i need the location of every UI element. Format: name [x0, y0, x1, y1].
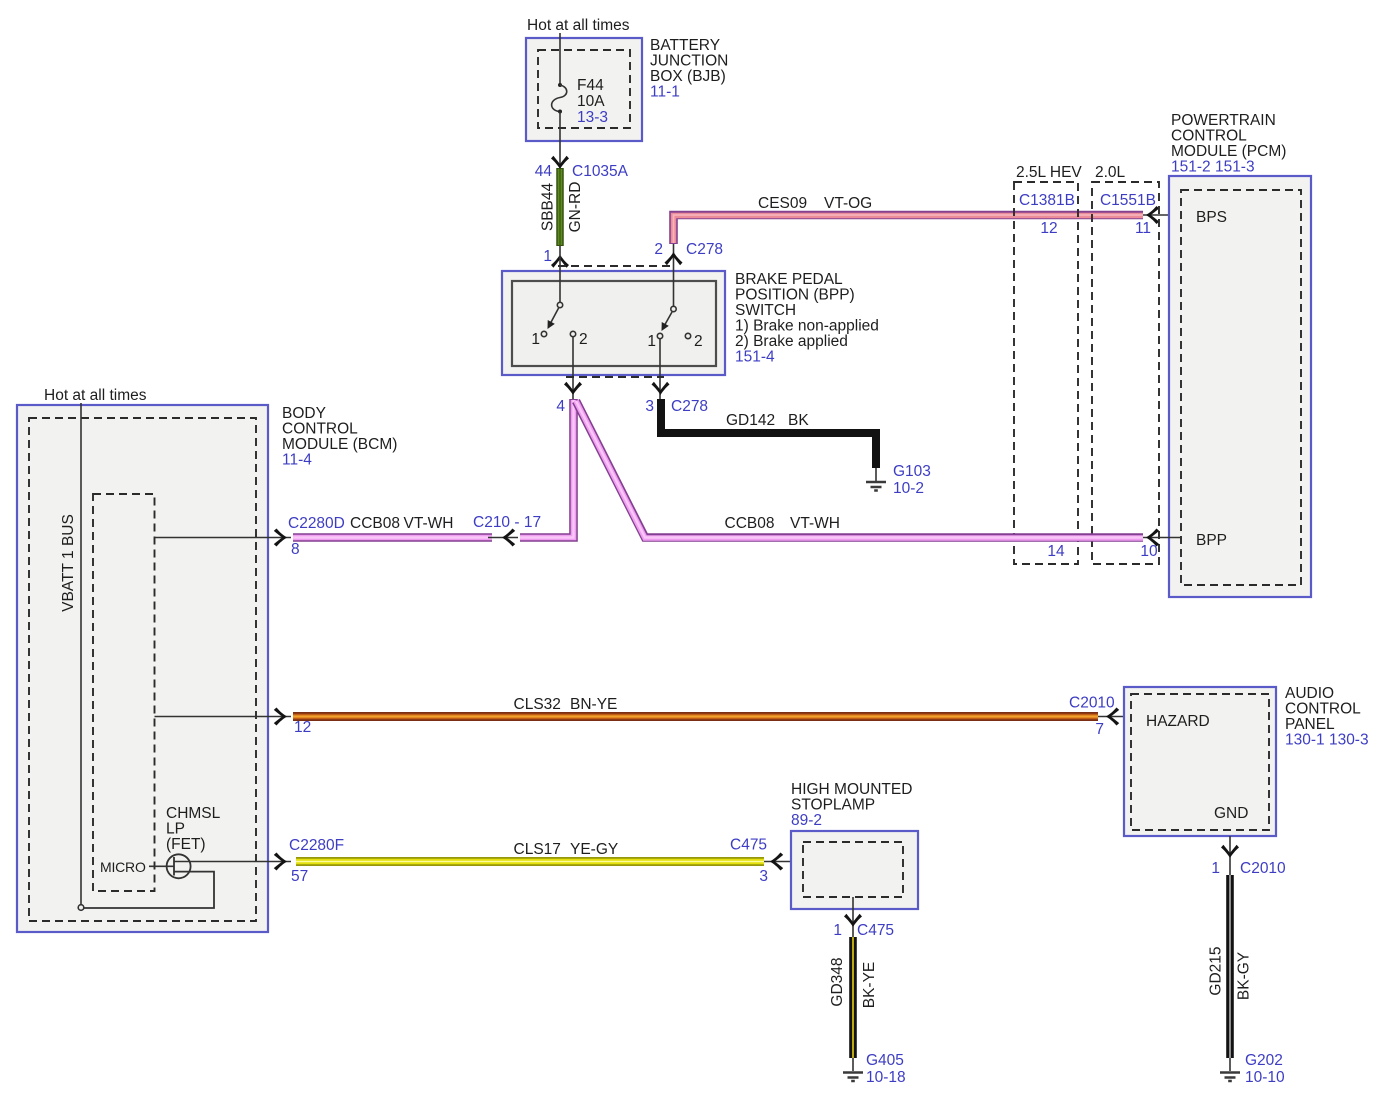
pin GND label [1214, 805, 1248, 822]
wire from contact 2 down to pin 4 [572, 337, 574, 399]
connector C475 arrow [770, 853, 783, 871]
pin 8 label [291, 541, 300, 558]
C2010 pin 7 label [1095, 721, 1104, 738]
svg-text:BPS: BPS [1196, 209, 1227, 226]
svg-text:1: 1 [1211, 860, 1220, 877]
connector C1551B label [1100, 192, 1156, 209]
wire GD215 color label BK-GY [1236, 952, 1253, 1000]
connector arrow at PCM BPP [1146, 529, 1159, 547]
svg-text:10-10: 10-10 [1245, 1069, 1285, 1086]
connector C2280D label [288, 515, 345, 532]
PCM inner dashed boundary [1181, 190, 1301, 585]
wire CES09 VT-OG [674, 215, 1144, 244]
svg-text:G405: G405 [866, 1052, 904, 1069]
connector C475 label [730, 837, 767, 854]
C1381B pin 12 label [1040, 220, 1057, 237]
BPP switch pole 2 blade [658, 312, 672, 333]
lead to ground G103 [875, 468, 877, 481]
FET output chord to pin 57 [174, 861, 291, 863]
net Hot at all times (BCM) [44, 387, 147, 404]
svg-text:Hot at all times: Hot at all times [527, 17, 630, 34]
svg-text:3: 3 [759, 868, 768, 885]
BCM name label [282, 405, 397, 469]
connector C2010 arrow (hazard) [1106, 708, 1119, 726]
wire CCB08 circuit label (right) [725, 515, 840, 532]
svg-text:BODY: BODY [282, 405, 326, 422]
thin lead from CCB08 to PCM BPP [1143, 537, 1182, 539]
wire from Hot at all times into fuse F44 [559, 33, 561, 84]
FET supply path to VBATT bus [84, 872, 214, 908]
ground G202 label [1245, 1052, 1285, 1086]
svg-text:SWITCH: SWITCH [735, 302, 796, 319]
svg-text:BK: BK [788, 412, 809, 429]
svg-text:11-1: 11-1 [650, 84, 680, 101]
connector C475 bottom arrow [844, 914, 862, 927]
BCM output stub to pin 8 [155, 537, 292, 539]
net Hot at all times (BJB) [527, 17, 630, 34]
node junction on VBATT bus [78, 905, 84, 911]
BPP switch pin 1 arrow [551, 255, 569, 268]
svg-text:CLS32: CLS32 [514, 696, 561, 713]
connector C2280F label [289, 837, 344, 854]
brake pedal position switch outer box [502, 271, 725, 375]
svg-text:1) Brake non-applied: 1) Brake non-applied [735, 318, 879, 335]
svg-text:G202: G202 [1245, 1052, 1283, 1069]
2.5L HEV dashed box [1014, 182, 1078, 564]
connector C278 top dashed line [558, 265, 670, 267]
svg-text:CONTROL: CONTROL [282, 421, 358, 438]
PCM name label [1171, 112, 1286, 176]
C1551B pin 11 label [1135, 220, 1151, 237]
svg-text:2) Brake applied: 2) Brake applied [735, 333, 848, 350]
svg-text:C2010: C2010 [1069, 695, 1115, 712]
svg-text:10: 10 [1140, 543, 1158, 560]
svg-text:Hot at all times: Hot at all times [44, 387, 147, 404]
wire CLS17 circuit label [514, 841, 619, 858]
BPP switch pin 1 label [543, 248, 552, 265]
svg-text:2: 2 [579, 331, 588, 348]
svg-text:12: 12 [294, 719, 311, 736]
gate lead from MICRO to FET [149, 865, 174, 867]
svg-text:10-18: 10-18 [866, 1069, 906, 1086]
wire GD142 BK [661, 399, 876, 468]
net VBATT 1 BUS label [60, 514, 77, 612]
svg-text:2: 2 [654, 241, 663, 258]
wire GD215 BK-GY [1226, 875, 1234, 1058]
wire from fuse to connector C1035A [559, 112, 561, 169]
svg-text:BN-YE: BN-YE [570, 696, 617, 713]
CHMSL LP (FET) label [166, 805, 221, 853]
BJB inner dashed boundary [538, 50, 630, 128]
wire VBATT 1 BUS vertical [80, 403, 82, 907]
high mounted stoplamp name label [791, 781, 912, 829]
BPP pin 3 label [645, 398, 708, 415]
svg-text:BPP: BPP [1196, 532, 1227, 549]
wire CES09 circuit label [758, 195, 872, 212]
svg-text:1: 1 [543, 248, 552, 265]
svg-text:14: 14 [1047, 543, 1065, 560]
wire SBB44 color label GN-RD [567, 182, 584, 233]
lead from GND out of audio control panel [1229, 836, 1231, 876]
BCM inner dashed boundary [29, 418, 256, 921]
svg-text:PANEL: PANEL [1285, 716, 1335, 733]
audio control panel inner dashed boundary [1131, 694, 1269, 830]
C2010 GND pin 1 label [1211, 860, 1286, 877]
svg-text:130-1 130-3: 130-1 130-3 [1285, 732, 1369, 749]
svg-text:C1035A: C1035A [572, 163, 629, 180]
in-line connector C210-17 arrow [502, 529, 515, 547]
svg-text:C475: C475 [857, 922, 894, 939]
wire into BPP switch pin 1 [559, 246, 561, 302]
svg-text:1: 1 [833, 922, 842, 939]
in-line connector C210-17 link lead [488, 537, 518, 539]
BPP pin 3 arrow [652, 382, 670, 395]
wire CLS17 YE-GY [296, 857, 764, 866]
PCM pin BPP [1196, 532, 1227, 549]
ground G103 label [893, 463, 931, 497]
svg-text:89-2: 89-2 [791, 812, 822, 829]
BPP switch pole 2 contact 2 [685, 333, 702, 350]
svg-text:2.5L HEV: 2.5L HEV [1016, 164, 1082, 181]
svg-text:10-2: 10-2 [893, 480, 924, 497]
svg-text:C2010: C2010 [1240, 860, 1286, 877]
svg-text:3: 3 [645, 398, 654, 415]
high mounted stoplamp box [791, 831, 918, 909]
thin lead from CLS17 to stoplamp [764, 861, 804, 863]
BPP switch pole 1 contact 2 [570, 331, 587, 348]
wire GD142 circuit label [726, 412, 809, 429]
ground G103 [866, 482, 886, 491]
ground G405 label [866, 1052, 906, 1086]
svg-text:POSITION (BPP): POSITION (BPP) [735, 287, 855, 304]
svg-text:(FET): (FET) [166, 836, 206, 853]
fuse F44 10A [552, 77, 608, 126]
svg-text:CES09: CES09 [758, 195, 807, 212]
svg-text:CCB08: CCB08 [350, 515, 400, 532]
C1551B pin 10 label [1140, 543, 1158, 560]
2.0L dashed box [1092, 182, 1159, 564]
svg-text:C210 - 17: C210 - 17 [473, 514, 541, 531]
svg-text:151-4: 151-4 [735, 349, 775, 366]
svg-text:C475: C475 [730, 837, 767, 854]
wire CLS32 circuit label [514, 696, 618, 713]
wire CCB08 VT-WH from BCM pin 8 [293, 533, 492, 542]
BPP pin 4 arrow [564, 382, 582, 395]
C475 pin 3 label [759, 868, 768, 885]
svg-text:VT-OG: VT-OG [824, 195, 872, 212]
BCM pin 57 arrow [274, 853, 287, 871]
BPP switch pole 1 pivot [557, 302, 562, 307]
svg-text:G103: G103 [893, 463, 931, 480]
svg-text:10A: 10A [577, 93, 605, 110]
ground G405 [843, 1073, 863, 1082]
svg-text:57: 57 [291, 868, 308, 885]
svg-text:MODULE (BCM): MODULE (BCM) [282, 436, 397, 453]
BPP switch pole 1 blade [544, 308, 559, 331]
wire GD348 BK-YE [849, 937, 857, 1058]
connector arrow at PCM BPS [1146, 206, 1159, 224]
lead from stoplamp down to C475 [852, 897, 854, 937]
svg-text:BRAKE PEDAL: BRAKE PEDAL [735, 271, 843, 288]
wire CCB08 from C210 up to BPP pin 4 [520, 399, 574, 538]
svg-text:BK-YE: BK-YE [861, 962, 878, 1009]
svg-text:STOPLAMP: STOPLAMP [791, 797, 875, 814]
wire CLS32 BN-YE [293, 712, 1098, 721]
MICRO label [100, 859, 146, 875]
PCM pin BPS [1196, 209, 1227, 226]
connector C1035A pin 44 label [535, 163, 629, 180]
svg-text:GND: GND [1214, 805, 1248, 822]
connector C2010 label (hazard) [1069, 695, 1115, 712]
pin 12 label [294, 719, 311, 736]
svg-text:BATTERY: BATTERY [650, 37, 720, 54]
wire GD348 circuit label [829, 957, 846, 1006]
svg-text:CHMSL: CHMSL [166, 805, 221, 822]
svg-text:GD215: GD215 [1208, 946, 1225, 995]
svg-text:HIGH MOUNTED: HIGH MOUNTED [791, 781, 912, 798]
C1381B pin 14 label [1047, 543, 1065, 560]
svg-text:11: 11 [1135, 220, 1151, 237]
svg-text:GD142: GD142 [726, 412, 775, 429]
svg-text:GN-RD: GN-RD [567, 182, 584, 233]
svg-text:4: 4 [556, 398, 565, 415]
svg-text:7: 7 [1095, 721, 1104, 738]
svg-text:1: 1 [647, 333, 656, 350]
svg-text:C278: C278 [686, 241, 723, 258]
BPP switch name label [735, 271, 879, 366]
BPP switch pin 2 label [654, 241, 723, 258]
wire into BPP switch pin 2 (from CES09) [673, 244, 675, 306]
pin HAZARD label [1146, 713, 1210, 730]
2.5L HEV label [1016, 164, 1082, 181]
svg-text:HAZARD: HAZARD [1146, 713, 1210, 730]
svg-text:8: 8 [291, 541, 300, 558]
svg-text:12: 12 [1040, 220, 1057, 237]
wire SBB44 circuit label [540, 182, 557, 231]
wire CCB08 diagonal and run to PCM [576, 401, 1143, 538]
BPP pin 4 label [556, 398, 565, 415]
svg-text:C2280F: C2280F [289, 837, 344, 854]
C475 bottom pin 1 label [833, 922, 894, 939]
svg-text:CONTROL: CONTROL [1285, 701, 1361, 718]
audio control panel name label [1285, 685, 1369, 749]
svg-text:F44: F44 [577, 77, 604, 94]
audio control panel box [1124, 687, 1276, 836]
svg-text:C278: C278 [671, 398, 708, 415]
thin lead from CLS32 to audio control panel [1098, 716, 1132, 718]
in-line connector C210-17 label [473, 514, 541, 531]
stoplamp inner dashed boundary [803, 842, 903, 897]
svg-text:MICRO: MICRO [100, 859, 146, 875]
connector C278 bottom dashed line [566, 376, 664, 378]
wire CCB08 VT-WH circuit label (left) [350, 515, 453, 532]
svg-text:44: 44 [535, 163, 553, 180]
svg-text:MODULE (PCM): MODULE (PCM) [1171, 143, 1286, 160]
powertrain control module (PCM) box [1169, 176, 1311, 597]
svg-text:CLS17: CLS17 [514, 841, 561, 858]
pin 57 label [291, 868, 308, 885]
wire GD348 color label BK-YE [861, 962, 878, 1009]
svg-text:SBB44: SBB44 [540, 182, 557, 231]
BJB name label [650, 37, 728, 101]
ground G202 [1220, 1073, 1240, 1082]
wire SBB44 GN-RD [556, 168, 564, 246]
svg-text:13-3: 13-3 [577, 109, 608, 126]
svg-text:YE-GY: YE-GY [570, 841, 618, 858]
svg-text:1: 1 [531, 331, 540, 348]
svg-text:2: 2 [694, 333, 703, 350]
BPP switch pole 2 contact 1 [647, 333, 662, 350]
BCM pin 8 arrow [274, 529, 287, 547]
svg-text:2.0L: 2.0L [1095, 164, 1126, 181]
svg-text:VT-WH: VT-WH [404, 515, 454, 532]
BPP switch pole 1 contact 1 [531, 331, 546, 348]
body control module (BCM) outer box [17, 405, 268, 932]
svg-text:C2280D: C2280D [288, 515, 345, 532]
BPP switch pole 2 pivot [671, 306, 676, 311]
wire from pole 2 contact 1 down to pin 3 [659, 339, 661, 400]
lead to ground G202 [1229, 1058, 1231, 1071]
svg-text:CCB08: CCB08 [725, 515, 775, 532]
svg-text:VBATT 1 BUS: VBATT 1 BUS [60, 514, 77, 612]
lead to ground G405 [852, 1058, 854, 1071]
BCM micro dashed boundary [93, 494, 155, 891]
svg-text:LP: LP [166, 821, 185, 838]
BCM pin 12 arrow [274, 708, 287, 726]
connector C2010 arrow (GND) [1221, 845, 1239, 858]
svg-text:11-4: 11-4 [282, 452, 312, 469]
2.0L label [1095, 164, 1126, 181]
connector C1381B label [1019, 192, 1075, 209]
BCM output stub to pin 12 [155, 716, 292, 718]
wire GD215 circuit label [1208, 946, 1225, 995]
transistor CHMSL LP FET [167, 854, 191, 878]
thin lead from CES09 to PCM BPS [1143, 214, 1182, 216]
battery junction box (BJB) outer box [526, 38, 642, 141]
svg-text:C1551B: C1551B [1100, 192, 1156, 209]
svg-text:VT-WH: VT-WH [790, 515, 840, 532]
svg-text:GD348: GD348 [829, 957, 846, 1006]
svg-text:POWERTRAIN: POWERTRAIN [1171, 112, 1276, 129]
svg-text:AUDIO: AUDIO [1285, 685, 1334, 702]
svg-text:151-2 151-3: 151-2 151-3 [1171, 159, 1255, 176]
BPP switch inner body [512, 281, 716, 366]
connector C1035A arrow [551, 156, 569, 169]
svg-text:C1381B: C1381B [1019, 192, 1075, 209]
svg-text:CONTROL: CONTROL [1171, 128, 1247, 145]
svg-text:BOX (BJB): BOX (BJB) [650, 68, 726, 85]
svg-text:JUNCTION: JUNCTION [650, 53, 728, 70]
svg-text:BK-GY: BK-GY [1236, 952, 1253, 1000]
BPP switch pin 2 arrow [665, 252, 683, 265]
